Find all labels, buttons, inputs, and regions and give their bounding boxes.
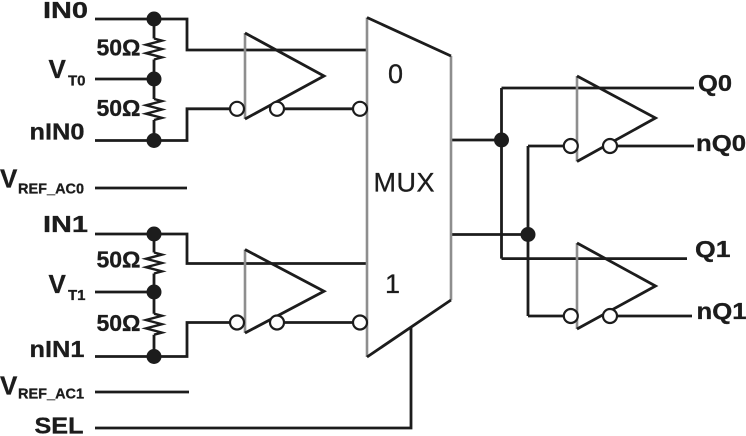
svg-text:REF_AC1: REF_AC1	[18, 387, 84, 403]
svg-text:50Ω: 50Ω	[96, 247, 140, 273]
svg-text:IN1: IN1	[43, 211, 88, 237]
svg-text:nQ1: nQ1	[697, 298, 746, 324]
svg-text:V: V	[0, 371, 18, 401]
svg-text:50Ω: 50Ω	[96, 310, 140, 336]
svg-text:SEL: SEL	[35, 413, 84, 436]
svg-text:IN0: IN0	[43, 0, 88, 23]
svg-text:nQ0: nQ0	[696, 130, 746, 156]
svg-text:V: V	[49, 54, 67, 84]
svg-text:T1: T1	[68, 287, 86, 304]
svg-text:V: V	[0, 164, 18, 194]
svg-text:T0: T0	[68, 73, 86, 90]
svg-text:Q1: Q1	[695, 236, 731, 262]
svg-text:nIN0: nIN0	[30, 119, 85, 145]
svg-text:MUX: MUX	[374, 168, 436, 198]
svg-text:50Ω: 50Ω	[96, 35, 140, 61]
svg-text:50Ω: 50Ω	[96, 95, 140, 121]
svg-text:Q0: Q0	[698, 70, 732, 96]
svg-text:REF_AC0: REF_AC0	[18, 182, 84, 198]
svg-text:nIN1: nIN1	[30, 336, 85, 362]
svg-text:V: V	[49, 269, 67, 299]
svg-text:0: 0	[388, 59, 403, 89]
svg-text:1: 1	[385, 269, 400, 299]
